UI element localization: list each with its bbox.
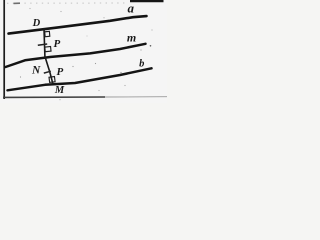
svg-text:D: D bbox=[32, 18, 41, 29]
right angle square at M bbox=[49, 77, 55, 83]
svg-text:M: M bbox=[54, 85, 65, 96]
line m bbox=[6, 44, 146, 67]
svg-text:a: a bbox=[128, 0, 135, 15]
svg-text:N: N bbox=[31, 65, 41, 77]
top frame dark bar bbox=[130, 0, 164, 2]
scan speckles bbox=[20, 8, 153, 100]
bottom frame border dark segment bbox=[3, 96, 105, 98]
top frame dotted edge bbox=[7, 2, 128, 4]
background bbox=[0, 0, 167, 103]
midpoint tick P upper bbox=[38, 44, 47, 45]
transversal DM bbox=[44, 29, 53, 84]
svg-text:m: m bbox=[127, 31, 136, 45]
svg-text:b: b bbox=[139, 58, 144, 69]
line b bbox=[8, 68, 152, 90]
right angle square at D bbox=[45, 31, 50, 36]
line a bbox=[9, 16, 147, 33]
bottom frame border faint segment bbox=[105, 96, 167, 98]
left frame border bbox=[3, 0, 5, 99]
top frame darker dash bbox=[14, 2, 21, 4]
svg-text:P: P bbox=[54, 38, 61, 50]
midpoint tick P lower bbox=[44, 71, 51, 73]
right angle square at N bbox=[45, 47, 51, 52]
svg-text:P: P bbox=[57, 66, 64, 78]
